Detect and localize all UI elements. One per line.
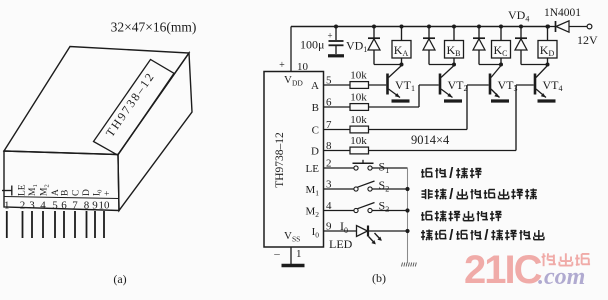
- diode VD4: [519, 25, 523, 29]
- svg-text:1: 1: [296, 248, 302, 260]
- ground for VT1 emitter: [392, 99, 410, 102]
- pin 10 VDD wire: [290, 27, 292, 72]
- watermark dianziwang (Chinese): [542, 253, 556, 266]
- diode VD3: [477, 25, 481, 29]
- node: collector junction Q4: [546, 63, 550, 67]
- resistor R3 10k: [324, 129, 351, 131]
- label: decode/memory/erase indicator (Chinese): [421, 230, 433, 241]
- ground for VT4 emitter: [538, 99, 556, 102]
- svg-text:C: C: [312, 124, 319, 136]
- transistor VT4 9014: [534, 74, 537, 95]
- IC package outline: front face: [4, 151, 119, 211]
- svg-text:1N4001: 1N4001: [544, 7, 581, 19]
- LED indicator: [324, 230, 357, 232]
- label plate on top face: [94, 60, 175, 156]
- switch S1 (push-button) on LE: [324, 167, 354, 169]
- transistor VT3 9014: [489, 74, 492, 95]
- relay KC: [499, 25, 503, 29]
- switch S2 on M1: [324, 188, 354, 190]
- svg-text:A: A: [311, 80, 319, 92]
- wire to VT1 base: [369, 84, 387, 86]
- diode VD1: [372, 25, 376, 29]
- svg-text:6: 6: [61, 200, 67, 212]
- resistor R4 10k: [324, 150, 351, 152]
- node S3 junction: [405, 208, 409, 212]
- node S2 junction: [405, 187, 409, 191]
- svg-text:32×47×16(mm): 32×47×16(mm): [111, 20, 197, 35]
- ground for capacitor: [328, 54, 344, 57]
- svg-text:.com: .com: [538, 264, 585, 290]
- svg-text:10: 10: [297, 61, 309, 73]
- svg-text:21IC: 21IC: [464, 248, 542, 292]
- label: memory/erase (Chinese): [421, 169, 433, 178]
- ground for VT2 emitter: [444, 99, 462, 102]
- svg-text:7: 7: [72, 200, 78, 212]
- svg-text:C: C: [72, 190, 82, 196]
- pin 1 VSS wire: [290, 247, 292, 264]
- svg-text:D: D: [311, 145, 319, 157]
- svg-text:2: 2: [20, 200, 26, 212]
- svg-text:A: A: [51, 189, 61, 196]
- svg-text:+: +: [279, 60, 285, 71]
- ground for VT3 emitter: [491, 99, 509, 102]
- svg-text:9014×4: 9014×4: [411, 133, 450, 147]
- transistor VT2 9014: [439, 74, 442, 95]
- svg-text:10k: 10k: [350, 114, 367, 126]
- svg-text:9: 9: [92, 200, 98, 212]
- label: bistable output select (Chinese): [421, 212, 433, 221]
- svg-text:(b): (b): [372, 271, 386, 285]
- wire to VT4 base: [369, 150, 517, 152]
- wire to VT2 base: [369, 106, 420, 108]
- svg-text:TH9738–12: TH9738–12: [274, 132, 286, 188]
- svg-text:1: 1: [4, 200, 10, 212]
- IC package outline: right side face: [118, 53, 192, 211]
- svg-text:LED: LED: [329, 237, 353, 251]
- relay KD: [546, 25, 550, 29]
- svg-text:12V: 12V: [577, 33, 598, 47]
- ground for VSS: [282, 264, 305, 267]
- svg-text:5: 5: [52, 200, 58, 212]
- IC package outline: top face: [4, 47, 189, 155]
- transistor VT1 9014: [386, 74, 389, 95]
- svg-text:B: B: [61, 190, 71, 196]
- wire to VT3 base: [369, 129, 468, 131]
- svg-text:8: 8: [84, 200, 90, 212]
- capacitor C1 100u: [335, 27, 337, 41]
- svg-text:10k: 10k: [350, 70, 367, 82]
- resistor R1 10k: [324, 84, 351, 86]
- svg-text:10k: 10k: [350, 92, 367, 104]
- top supply rail wire: [291, 26, 548, 28]
- diode VD2: [427, 25, 431, 29]
- relay KA: [400, 25, 404, 29]
- svg-text:10: 10: [99, 200, 111, 212]
- svg-text:B: B: [312, 102, 319, 114]
- relay KB: [452, 25, 456, 29]
- svg-text:D: D: [82, 189, 92, 196]
- svg-text:LE: LE: [18, 184, 28, 196]
- select bus wire: [407, 168, 409, 263]
- svg-text:100μ: 100μ: [300, 38, 324, 52]
- label: non-lock/momentary output select (Chinese): [422, 189, 433, 199]
- svg-text:–: –: [273, 248, 280, 260]
- package pins: [6, 211, 8, 238]
- supply diode 1N4001: [546, 25, 550, 29]
- svg-text:4: 4: [40, 200, 46, 212]
- svg-text:10k: 10k: [350, 135, 367, 147]
- separator line above pin numbers: [4, 197, 119, 199]
- pin1 ground mark: [2, 190, 13, 192]
- bus end hatch mark: [402, 263, 403, 267]
- svg-text:+: +: [103, 191, 113, 196]
- node LED junction: [405, 229, 409, 233]
- switch S3 on M2: [324, 210, 354, 212]
- 12V input terminal: [587, 24, 592, 29]
- node: collector junction Q2: [452, 63, 456, 67]
- svg-text:+: +: [327, 31, 332, 41]
- resistor R2 10k: [324, 106, 351, 108]
- LED light arrows: [369, 237, 376, 244]
- svg-text:(a): (a): [113, 272, 126, 286]
- IC U1 TH9738-12 block: [264, 72, 324, 248]
- svg-text:0: 0: [344, 226, 348, 235]
- svg-text:LE: LE: [306, 163, 320, 175]
- node: collector junction Q1: [400, 63, 404, 67]
- svg-text:3: 3: [29, 200, 35, 212]
- node: collector junction Q3: [499, 63, 503, 67]
